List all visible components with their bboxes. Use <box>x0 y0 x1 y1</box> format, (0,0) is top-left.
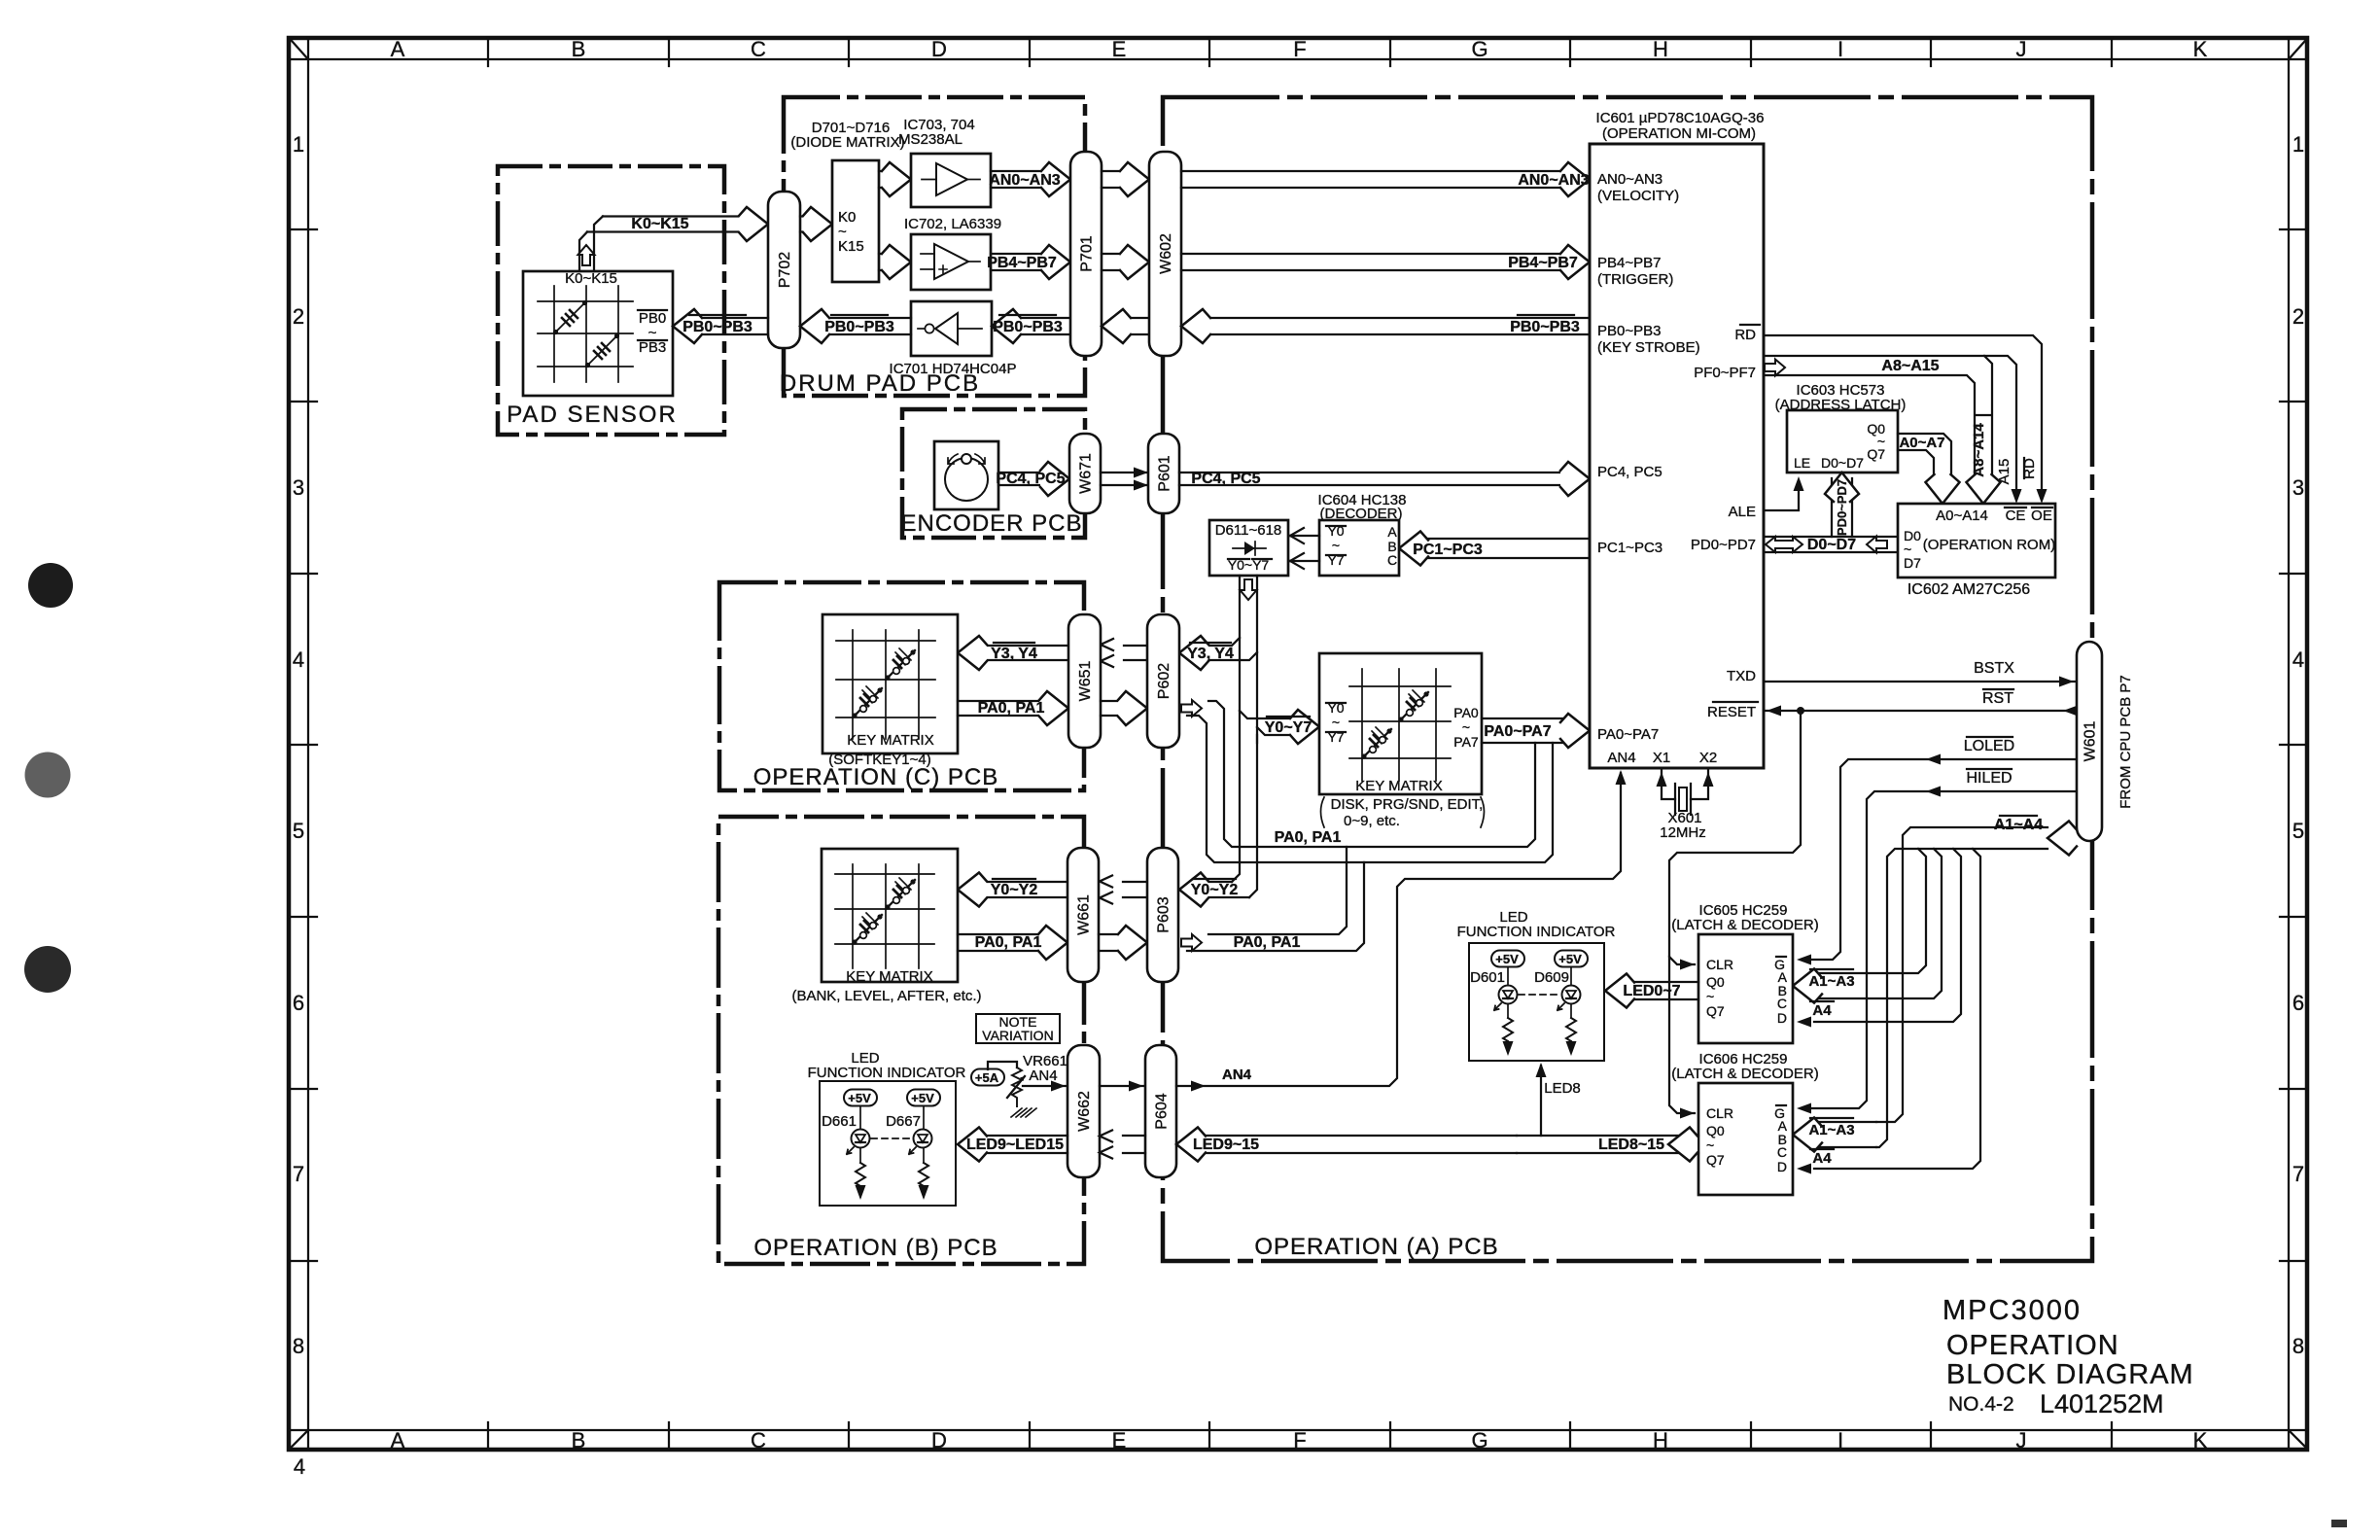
ground for VR661 <box>1011 1108 1036 1117</box>
svg-text:OPERATION: OPERATION <box>1946 1330 2119 1361</box>
svg-text:F: F <box>1293 1428 1306 1452</box>
svg-text:ENCODER PCB: ENCODER PCB <box>900 510 1082 537</box>
wire bus A8~A15 from IC601 <box>1764 356 2022 504</box>
svg-text:K: K <box>2193 37 2208 61</box>
svg-text:PC1~PC3: PC1~PC3 <box>1413 542 1483 558</box>
wire bus PB0~PB3 IC601 to W602 <box>1181 309 1590 343</box>
svg-text:LED9~LED15: LED9~LED15 <box>966 1137 1064 1153</box>
PAD SENSOR PCB boundary <box>498 166 724 435</box>
svg-text:D611~618: D611~618 <box>1215 522 1282 539</box>
connector W602 <box>1149 152 1181 356</box>
svg-text:AN4: AN4 <box>1222 1067 1252 1083</box>
svg-text:OPERATION (A) PCB: OPERATION (A) PCB <box>1254 1234 1498 1260</box>
svg-text:C: C <box>1777 996 1787 1011</box>
wire bus AN0~AN3 W602 to IC601 <box>1181 162 1590 196</box>
svg-text:F: F <box>1293 37 1306 61</box>
svg-text:~: ~ <box>1462 719 1470 735</box>
svg-text:4: 4 <box>294 1454 305 1479</box>
svg-text:IC602 AM27C256: IC602 AM27C256 <box>1907 581 2030 598</box>
wire bus PC4 PC5 W671 to P601 <box>1101 468 1148 491</box>
punch hole middle <box>25 752 71 798</box>
svg-text:CE: CE <box>2006 507 2026 524</box>
svg-text:8: 8 <box>293 1334 304 1358</box>
svg-text:3: 3 <box>293 475 304 500</box>
variable resistor VR661 <box>988 1053 1067 1106</box>
svg-text:PC4, PC5: PC4, PC5 <box>1597 464 1662 480</box>
svg-text:BLOCK DIAGRAM: BLOCK DIAGRAM <box>1946 1359 2194 1390</box>
svg-text:PA0, PA1: PA0, PA1 <box>975 934 1042 951</box>
wire bus LED9~LED15 W662 to LED indicator B <box>958 1128 1067 1162</box>
svg-text:PC1~PC3: PC1~PC3 <box>1597 540 1662 556</box>
wire bus Y0~Y2 lane to P603 <box>1179 873 1249 907</box>
svg-text:(OPERATION ROM): (OPERATION ROM) <box>1923 537 2055 553</box>
svg-text:B: B <box>572 1428 586 1452</box>
svg-text:A0~A7: A0~A7 <box>1899 435 1944 451</box>
svg-text:PB0~PB3: PB0~PB3 <box>682 319 752 335</box>
svg-text:Q7: Q7 <box>1706 1003 1725 1019</box>
svg-text:I: I <box>1837 1428 1843 1452</box>
svg-text:(OPERATION MI-COM): (OPERATION MI-COM) <box>1602 125 1756 142</box>
svg-text:FROM CPU PCB P7: FROM CPU PCB P7 <box>2117 675 2134 809</box>
svg-text:D0~D7: D0~D7 <box>1821 455 1864 471</box>
wire bus A1~A3 to IC606 <box>1793 1118 1876 1152</box>
connector P702 <box>768 192 800 348</box>
svg-text:(TRIGGER): (TRIGGER) <box>1597 271 1673 288</box>
OPERATION (C) PCB boundary <box>719 582 1084 790</box>
svg-text:P701: P701 <box>1079 235 1096 271</box>
svg-text:12MHz: 12MHz <box>1660 824 1706 841</box>
wire bus PA0 PA1 from P602 down and right <box>1181 700 1553 862</box>
svg-text:4: 4 <box>293 647 304 672</box>
label DISK PRG/SND EDIT 0~9 etc <box>1321 796 1485 829</box>
sheet number 4 <box>294 1454 305 1479</box>
connector P604 <box>1145 1045 1176 1177</box>
svg-text:6: 6 <box>293 991 304 1015</box>
punch hole bottom <box>24 946 71 993</box>
svg-text:LED0~7: LED0~7 <box>1623 983 1680 999</box>
svg-text:LED9~15: LED9~15 <box>1193 1137 1259 1153</box>
svg-text:PA0~PA7: PA0~PA7 <box>1484 723 1551 740</box>
svg-text:ALE: ALE <box>1729 504 1756 520</box>
svg-text:RD: RD <box>1734 327 1756 343</box>
LED function indicator A <box>1457 909 1616 1061</box>
svg-text:PAD SENSOR: PAD SENSOR <box>507 402 678 428</box>
svg-text:Y3, Y4: Y3, Y4 <box>991 646 1037 662</box>
svg-text:P602: P602 <box>1156 663 1172 699</box>
svg-text:PB0~PB3: PB0~PB3 <box>1510 319 1580 335</box>
svg-text:D601: D601 <box>1470 969 1505 986</box>
svg-text:Y0~Y2: Y0~Y2 <box>991 882 1038 898</box>
wire AN4 VR661 to W662 <box>1023 1067 1067 1092</box>
svg-text:K15: K15 <box>838 238 864 255</box>
latch decoder IC605 HC259 <box>1671 902 1818 1043</box>
svg-text:LE: LE <box>1794 455 1810 471</box>
diode matrix D701~D716 <box>790 120 904 282</box>
micro controller IC601 <box>1590 110 1764 768</box>
wire bus LED9~15 label right of P604 <box>1176 1128 1517 1162</box>
wire ALE to IC603 LE <box>1764 476 1804 510</box>
wire bus PB0~PB3 W602 to P701 <box>1102 309 1149 343</box>
svg-text:(LATCH & DECODER): (LATCH & DECODER) <box>1671 1066 1818 1082</box>
wire A4 to IC606 D <box>1797 849 1980 1174</box>
svg-text:H: H <box>1653 37 1668 61</box>
svg-text:PA0, PA1: PA0, PA1 <box>1275 829 1342 846</box>
svg-text:J: J <box>2016 1428 2027 1452</box>
svg-text:PC4, PC5: PC4, PC5 <box>1191 471 1260 487</box>
svg-text:(BANK, LEVEL, AFTER, etc.): (BANK, LEVEL, AFTER, etc.) <box>791 988 981 1004</box>
svg-text:LED8~15: LED8~15 <box>1598 1137 1664 1153</box>
hollow arrow PF0~PF7 <box>1765 360 1785 376</box>
svg-text:~: ~ <box>1332 538 1340 553</box>
svg-text:P601: P601 <box>1157 455 1173 491</box>
svg-text:A1~A4: A1~A4 <box>1994 817 2043 833</box>
svg-text:CLR: CLR <box>1706 1105 1733 1121</box>
wire AN4 P604 to IC601 <box>1176 770 1627 1092</box>
inverter IC701 HD74HC04P <box>890 301 1017 377</box>
wire bus A0~A7 IC603 to ROM <box>1898 434 1960 504</box>
punch hole top <box>28 563 73 608</box>
svg-text:VARIATION: VARIATION <box>982 1028 1053 1043</box>
svg-text:+5A: +5A <box>975 1070 999 1085</box>
svg-text:Q7: Q7 <box>1706 1152 1725 1168</box>
svg-text:IC702, LA6339: IC702, LA6339 <box>904 216 1001 232</box>
wire bus Y0~Y2 W661 to key matrix B <box>958 873 1067 907</box>
svg-text:~: ~ <box>1706 989 1714 1004</box>
svg-text:A8~A15: A8~A15 <box>1881 358 1939 374</box>
svg-text:CLR: CLR <box>1706 957 1733 972</box>
wire bus PA0 PA1 W651 to P602 <box>1101 691 1147 725</box>
comparator IC702 LA6339 <box>904 216 1001 290</box>
wire bus PA0 PA1 softkey matrix to W651 <box>958 691 1068 725</box>
svg-text:AN0~AN3: AN0~AN3 <box>1518 172 1589 189</box>
key matrix B BANK LEVEL AFTER <box>822 849 958 985</box>
svg-text:RESET: RESET <box>1707 704 1756 720</box>
svg-text:+5V: +5V <box>911 1091 934 1105</box>
svg-text:A: A <box>391 1428 405 1452</box>
svg-text:X1: X1 <box>1653 750 1670 766</box>
svg-text:PA0, PA1: PA0, PA1 <box>1234 934 1301 951</box>
svg-text:PA0: PA0 <box>1453 705 1479 720</box>
wire bus Y0~Y2 P603 to W661 <box>1100 876 1147 904</box>
svg-text:W661: W661 <box>1076 894 1093 935</box>
svg-text:E: E <box>1112 1428 1127 1452</box>
svg-text:FUNCTION INDICATOR: FUNCTION INDICATOR <box>1457 924 1616 940</box>
wire bus D0~D7 IC601 to ROM <box>1764 537 1898 554</box>
ENCODER PCB boundary <box>900 409 1085 538</box>
svg-text:KEY MATRIX: KEY MATRIX <box>846 968 932 985</box>
wire bus PB0~PB3 P702 to pad sensor <box>673 309 768 343</box>
title OPERATION <box>1946 1330 2119 1361</box>
svg-text:OPERATION (C) PCB: OPERATION (C) PCB <box>753 764 999 790</box>
svg-text:~: ~ <box>1332 715 1340 730</box>
svg-text:AN0~AN3: AN0~AN3 <box>989 172 1060 189</box>
latch decoder IC606 HC259 <box>1671 1051 1818 1195</box>
svg-text:A1~A3: A1~A3 <box>1808 973 1854 990</box>
svg-text:PD0~PD7: PD0~PD7 <box>1835 479 1849 536</box>
connector W671 <box>1069 434 1101 513</box>
svg-text:1: 1 <box>2292 132 2304 157</box>
wire Y0 IC604 to D611 block <box>1290 528 1319 543</box>
wire bus PC4 PC5 encoder to W671 <box>996 462 1069 496</box>
sheet border frame <box>289 38 2307 1450</box>
connector P701 <box>1070 152 1102 356</box>
svg-text:PB3: PB3 <box>639 339 666 356</box>
svg-text:AN4: AN4 <box>1607 750 1635 766</box>
svg-text:Q0: Q0 <box>1706 974 1725 990</box>
svg-text:G: G <box>1471 37 1487 61</box>
scan mark bottom right <box>2331 1520 2347 1527</box>
svg-text:C: C <box>1777 1144 1787 1160</box>
title NO.4-2 L401252M <box>1948 1389 2164 1418</box>
svg-text:0~9, etc.: 0~9, etc. <box>1344 813 1400 829</box>
svg-text:4: 4 <box>2292 647 2304 672</box>
svg-text:PC4, PC5: PC4, PC5 <box>996 471 1065 487</box>
wire K0~K15 bus P702 to diode matrix <box>800 207 832 241</box>
wire LED8 to LED indicator A <box>1536 1063 1581 1136</box>
svg-text:+5V: +5V <box>1495 952 1519 966</box>
wire bus Y3 Y4 W651 to softkey matrix <box>958 636 1068 670</box>
diode block D611~618 <box>1209 520 1288 576</box>
wire bus PC1~PC3 IC601 to IC604 <box>1399 532 1590 566</box>
svg-text:I: I <box>1837 37 1843 61</box>
svg-text:2: 2 <box>2292 304 2304 329</box>
svg-text:NO.4-2: NO.4-2 <box>1948 1393 2014 1416</box>
svg-text:A15: A15 <box>1996 459 2012 485</box>
svg-text:D609: D609 <box>1534 969 1569 986</box>
svg-text:(LATCH & DECODER): (LATCH & DECODER) <box>1671 917 1818 933</box>
wire bus PB4~PB7 P701 to W602 <box>1102 245 1149 279</box>
wire bus Y0~Y7 lane to disk key matrix <box>1240 710 1319 744</box>
svg-text:A0~A14: A0~A14 <box>1936 507 1988 524</box>
wire bus PB0~PB3 P701 to IC701 <box>992 309 1070 343</box>
svg-text:A: A <box>1387 524 1397 540</box>
svg-text:A1~A3: A1~A3 <box>1808 1122 1854 1138</box>
svg-text:X2: X2 <box>1699 750 1717 766</box>
svg-text:RST: RST <box>1982 690 2013 707</box>
svg-text:7: 7 <box>293 1162 304 1186</box>
svg-text:AN0~AN3: AN0~AN3 <box>1597 171 1662 188</box>
wire bus PA0 PA1 W661 to P603 <box>1099 926 1147 960</box>
OPERATION (B) PCB boundary <box>718 817 1084 1264</box>
vertical label A8~A14 <box>1971 415 1991 477</box>
svg-text:(DIODE MATRIX): (DIODE MATRIX) <box>790 134 904 151</box>
svg-text:MS238AL: MS238AL <box>898 131 962 148</box>
wire bus diode matrix to IC702 <box>879 245 911 279</box>
label BANK LEVEL AFTER etc <box>791 988 981 1004</box>
svg-text:K: K <box>2193 1428 2208 1452</box>
svg-text:W671: W671 <box>1078 453 1095 494</box>
svg-text:(KEY STROBE): (KEY STROBE) <box>1597 339 1700 356</box>
svg-text:BSTX: BSTX <box>1974 660 2014 677</box>
label FROM CPU PCB P7 <box>2117 675 2134 809</box>
svg-text:1: 1 <box>293 132 304 157</box>
power +5A <box>971 1069 1004 1086</box>
wire A4 to IC605 D <box>1797 849 1961 1028</box>
svg-text:PA7: PA7 <box>1453 734 1479 750</box>
svg-text:PB4~PB7: PB4~PB7 <box>987 255 1057 271</box>
title BLOCK DIAGRAM <box>1946 1359 2194 1390</box>
svg-text:+5V: +5V <box>848 1091 871 1105</box>
svg-text:P702: P702 <box>777 252 793 288</box>
wire bus PA0 PA1 key matrix B to W661 <box>958 926 1067 960</box>
svg-text:(VELOCITY): (VELOCITY) <box>1597 188 1679 204</box>
svg-text:KEY MATRIX: KEY MATRIX <box>1355 778 1442 794</box>
svg-text:~: ~ <box>1706 1137 1714 1153</box>
wire LOLED W601 to IC605 G <box>1797 737 2077 965</box>
svg-text:Y0~Y7: Y0~Y7 <box>1265 719 1312 736</box>
svg-text:P603: P603 <box>1156 896 1172 932</box>
svg-text:W601: W601 <box>2082 721 2099 762</box>
svg-text:C: C <box>751 37 766 61</box>
wire bus Y3 Y4 P602 to W651 <box>1101 639 1147 667</box>
svg-text:C: C <box>751 1428 766 1452</box>
svg-text:DISK, PRG/SND, EDIT,: DISK, PRG/SND, EDIT, <box>1331 796 1484 813</box>
svg-text:J: J <box>2016 37 2027 61</box>
svg-text:A4: A4 <box>1812 1002 1832 1019</box>
wire AN4 junction from P604 line continue <box>0 0 1 1</box>
DRUM PAD PCB boundary <box>780 97 1085 397</box>
grid row numbers left <box>293 132 304 1358</box>
svg-text:Q7: Q7 <box>1867 446 1885 462</box>
svg-text:(DECODER): (DECODER) <box>1320 506 1403 522</box>
wire bus diode matrix to IC703 <box>879 162 911 196</box>
svg-text:PA0, PA1: PA0, PA1 <box>978 700 1045 717</box>
title MPC3000 <box>1942 1295 2082 1326</box>
svg-text:HILED: HILED <box>1966 770 2012 787</box>
svg-text:W662: W662 <box>1076 1091 1093 1132</box>
wire vertical bus Y0~Y7 lane <box>1232 576 1257 897</box>
wire AN4 W662 to P604 <box>1100 1081 1145 1092</box>
svg-text:TXD: TXD <box>1727 668 1756 684</box>
svg-text:Q0: Q0 <box>1706 1123 1725 1138</box>
svg-text:OE: OE <box>2031 507 2052 524</box>
wire RD from IC601 to ROM OE <box>1764 335 2047 504</box>
wire bus Y3 Y4 lane to P602 <box>1179 636 1257 670</box>
crystal X601 12MHz <box>1657 768 1714 841</box>
svg-text:7: 7 <box>2292 1162 2304 1186</box>
wire bus PB4~PB7 IC702 to P701 <box>987 245 1070 279</box>
svg-text:8: 8 <box>2292 1334 2304 1358</box>
svg-text:P604: P604 <box>1154 1093 1171 1129</box>
svg-text:W602: W602 <box>1158 233 1174 274</box>
decoder IC604 HC138 <box>1318 492 1407 576</box>
wire bus PB4~PB7 W602 to IC601 <box>1181 245 1590 279</box>
connector P602 <box>1147 614 1179 748</box>
svg-text:KEY MATRIX: KEY MATRIX <box>847 732 933 749</box>
svg-text:IC601 µPD78C10AGQ-36: IC601 µPD78C10AGQ-36 <box>1596 110 1765 126</box>
svg-text:PB0~PB3: PB0~PB3 <box>824 319 894 335</box>
vertical label A15 <box>1996 459 2012 485</box>
svg-text:D: D <box>931 1428 947 1452</box>
svg-text:PB0~PB3: PB0~PB3 <box>993 319 1063 335</box>
svg-text:D0~D7: D0~D7 <box>1807 537 1856 553</box>
svg-text:2: 2 <box>293 304 304 329</box>
LED function indicator B <box>808 1050 966 1206</box>
wire TXD to W601 BSTX <box>1764 660 2077 687</box>
svg-text:D: D <box>1777 1010 1787 1026</box>
wire bus AN0~AN3 P701 to W602 <box>1102 162 1149 196</box>
svg-text:G: G <box>1471 1428 1487 1452</box>
svg-text:(ADDRESS LATCH): (ADDRESS LATCH) <box>1775 397 1907 413</box>
svg-text:+5V: +5V <box>1558 952 1582 966</box>
wire bus LED0~7 IC605 to LED indicator A <box>1605 974 1698 1008</box>
operation ROM IC602 AM27C256 <box>1898 504 2055 598</box>
wire Y7 IC604 to D611 block <box>1290 553 1319 569</box>
wire bus A1~A3 to IC605 <box>1793 849 1942 1003</box>
svg-text:E: E <box>1112 37 1127 61</box>
svg-text:3: 3 <box>2292 475 2304 500</box>
grid row numbers right <box>2292 132 2304 1358</box>
wire K0~K15 bus pad sensor to P702 <box>579 207 768 271</box>
svg-text:PB4~PB7: PB4~PB7 <box>1597 255 1661 271</box>
wire bus PC4 PC5 P601 to IC601 <box>1179 462 1590 496</box>
connector W662 <box>1067 1045 1100 1177</box>
connector W661 <box>1067 848 1099 982</box>
svg-text:D: D <box>931 37 947 61</box>
svg-text:L401252M: L401252M <box>2040 1389 2164 1418</box>
svg-text:D: D <box>1777 1159 1787 1174</box>
svg-text:D7: D7 <box>1904 555 1921 571</box>
svg-text:FUNCTION INDICATOR: FUNCTION INDICATOR <box>808 1065 966 1081</box>
svg-text:K0~K15: K0~K15 <box>631 216 688 232</box>
connector P601 <box>1148 434 1179 513</box>
svg-text:OPERATION (B) PCB: OPERATION (B) PCB <box>753 1235 997 1261</box>
address latch IC603 HC573 <box>1775 382 1907 472</box>
svg-text:5: 5 <box>2292 819 2304 843</box>
svg-text:A4: A4 <box>1812 1150 1832 1167</box>
wire bus PA0~PA7 disk matrix to IC601 <box>1482 714 1590 748</box>
wire bus PA0 PA1 from P603 right and up <box>1181 847 1364 951</box>
svg-text:LOLED: LOLED <box>1964 738 2014 754</box>
svg-text:PB0~PB3: PB0~PB3 <box>1597 323 1661 339</box>
svg-text:5: 5 <box>293 819 304 843</box>
svg-text:PF0~PF7: PF0~PF7 <box>1694 365 1756 381</box>
disk key matrix <box>1319 653 1482 794</box>
grid column letters top <box>391 37 2208 61</box>
grid column letters bottom <box>391 1428 2208 1452</box>
svg-text:W651: W651 <box>1077 661 1094 702</box>
svg-text:PB4~PB7: PB4~PB7 <box>1508 255 1578 271</box>
hollow up arrow on K0~K15 <box>578 245 595 265</box>
connector W651 <box>1068 614 1101 748</box>
wire RESET to IC605 IC606 CLR <box>1669 711 1801 1119</box>
wire RST W601 to IC601 RESET <box>1764 689 2078 717</box>
vertical label RD to OE <box>2021 458 2038 479</box>
rotary encoder symbol <box>934 441 998 509</box>
svg-text:LED8: LED8 <box>1544 1080 1581 1097</box>
svg-text:PA0~PA7: PA0~PA7 <box>1597 726 1659 743</box>
hollow down arrow below D611 block <box>1241 579 1257 600</box>
svg-text:D667: D667 <box>886 1113 921 1130</box>
svg-text:B: B <box>572 37 586 61</box>
wire bus LED8~15 IC606 to P604 <box>1517 1128 1698 1162</box>
svg-text:A: A <box>391 37 405 61</box>
OPERATION (A) PCB boundary <box>1163 97 2092 1261</box>
svg-text:MPC3000: MPC3000 <box>1942 1295 2082 1326</box>
wire bus A1~A4 from W601 <box>1876 816 2077 1147</box>
wire HILED W601 to IC606 G <box>1797 769 2077 1114</box>
svg-text:Y0~Y2: Y0~Y2 <box>1191 882 1239 898</box>
svg-text:IC701 HD74HC04P: IC701 HD74HC04P <box>890 361 1017 377</box>
NOTE VARIATION box <box>976 1014 1060 1043</box>
svg-text:A8~A14: A8~A14 <box>1971 423 1987 477</box>
svg-text:K0~K15: K0~K15 <box>565 270 617 287</box>
svg-text:Y3, Y4: Y3, Y4 <box>1187 646 1234 662</box>
op-amp IC703 704 MS238AL <box>898 117 991 207</box>
svg-text:H: H <box>1653 1428 1668 1452</box>
svg-text:AN4: AN4 <box>1029 1067 1057 1084</box>
wire bus PB0~PB3 IC701 to P702 <box>800 309 911 343</box>
